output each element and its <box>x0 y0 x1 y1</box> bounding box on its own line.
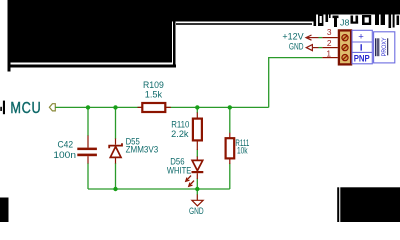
junction D55 bottom <box>113 187 117 191</box>
redaction band B top-middle <box>172 0 316 22</box>
wire riser to pin 1 <box>269 58 323 108</box>
terminal block label box <box>352 30 372 64</box>
svg-text:ZMM3V3: ZMM3V3 <box>126 145 159 155</box>
redaction right edge line <box>173 22 176 68</box>
redaction bottom-right edge line <box>337 187 339 222</box>
wire D55 branch <box>115 107 117 139</box>
redaction band C top-right <box>316 0 400 15</box>
svg-text:J8: J8 <box>340 18 349 27</box>
svg-text:+: + <box>358 31 364 42</box>
hierarchical label diamond for MCU <box>49 104 55 111</box>
resistor R109 <box>142 103 165 112</box>
svg-text:C42: C42 <box>58 139 74 149</box>
redaction bottom-right block <box>340 187 400 222</box>
label - (vertical bar) <box>361 44 362 50</box>
junction GND rail <box>195 187 199 191</box>
capacitor C42 <box>77 148 97 151</box>
wire C42 branch <box>87 107 89 136</box>
junction R110 top <box>195 105 199 109</box>
wire R110/D56 branch <box>196 107 198 113</box>
wire bottom rail <box>88 188 230 190</box>
cut-off glyphs left of MCU <box>0 107 2 111</box>
proxy inner lines <box>376 38 388 56</box>
svg-text:WHITE: WHITE <box>167 165 192 175</box>
wire main horizontal <box>55 106 268 108</box>
redaction blob A top-left <box>11 0 173 63</box>
svg-text:PROXY: PROXY <box>381 37 388 56</box>
zener diode D55 <box>109 143 122 157</box>
svg-text:1: 1 <box>326 49 331 59</box>
LED D56 <box>186 160 204 186</box>
svg-text:100n: 100n <box>53 150 76 160</box>
svg-text:2.2k: 2.2k <box>171 129 189 139</box>
svg-text:GND: GND <box>289 42 304 52</box>
svg-text:1.5k: 1.5k <box>145 90 163 100</box>
wire stubs at labels +12V / GND <box>319 37 323 39</box>
connector J8 body <box>339 30 351 64</box>
screw terminal pin 2 <box>342 45 348 51</box>
proxy box <box>374 32 395 63</box>
wire R111 branch <box>229 107 231 133</box>
svg-text:2: 2 <box>327 38 332 48</box>
ground symbol <box>192 200 203 206</box>
svg-text:GND: GND <box>189 206 204 216</box>
svg-text:3: 3 <box>327 27 332 37</box>
junction D55 top <box>113 105 117 109</box>
redaction bottom strip <box>8 65 177 68</box>
svg-text:+12V: +12V <box>282 32 303 42</box>
redaction bottom-left corner mark <box>0 198 9 223</box>
resistor R110 <box>193 119 202 141</box>
redaction fragment glyphs <box>314 12 400 28</box>
junction C42 top <box>86 105 90 109</box>
redaction band underline <box>176 23 312 25</box>
wire GND stub <box>196 189 198 195</box>
svg-text:PNP: PNP <box>354 54 370 64</box>
svg-text:10k: 10k <box>237 146 248 156</box>
resistor R111 <box>226 138 235 158</box>
screw terminal pin 3 <box>342 35 348 41</box>
svg-text:R110: R110 <box>171 120 189 130</box>
screw terminal pin 1 <box>342 55 348 61</box>
junction R111 top <box>228 105 232 109</box>
svg-text:R109: R109 <box>143 80 164 90</box>
redaction left edge line <box>8 0 11 72</box>
pin stubs (red) <box>88 38 338 201</box>
svg-text:MCU: MCU <box>10 100 41 117</box>
